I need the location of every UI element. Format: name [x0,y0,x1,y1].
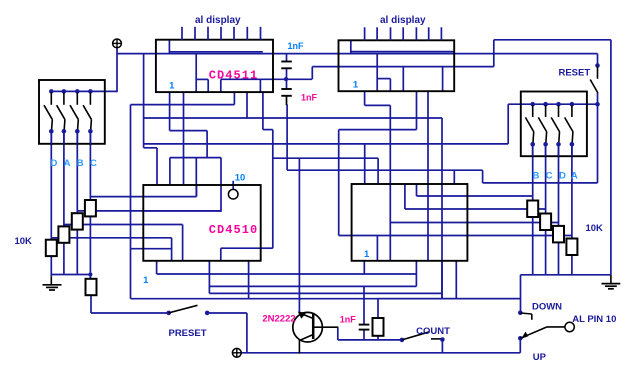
wire stub chip3 248 [248,261,250,299]
wire V494 [493,40,495,67]
switch UP contact [518,336,523,341]
wire V456 chip4 stub [455,261,457,299]
wire count line [338,339,402,341]
wire up contact stub [519,340,521,353]
svg-text:10: 10 [235,172,246,183]
wire R4 top [89,197,91,200]
wire branch C [90,196,196,198]
svg-text:2N2222: 2N2222 [262,313,295,324]
svg-text:AL PIN 10: AL PIN 10 [572,314,616,325]
wire preset res bottom [90,295,92,313]
svg-text:1: 1 [353,79,359,90]
wire R1 top [50,238,52,240]
wire count res top lead [377,299,379,318]
wire L158 [170,157,221,159]
resistor R6 10K [540,214,551,231]
wire chip3 notch r v [220,248,222,261]
wire L40 [494,39,611,41]
resistor R10 count pull [373,318,384,336]
svg-text:al display: al display [380,15,426,26]
wire V130 [130,105,132,299]
wire V364 chip4 [363,261,365,274]
svg-text:B: B [532,171,539,182]
svg-text:1: 1 [169,80,175,91]
wire chip1 notch1 v [207,79,209,92]
wire +V to switch bank bus [51,90,117,92]
wire L66 [312,66,494,68]
wire V416 chip4 [415,261,417,287]
svg-text:10K: 10K [14,236,32,247]
wire branch B [77,210,221,212]
wire bank-left drop [89,131,91,196]
wire right res bottom [571,255,573,275]
IC U1 display pins [181,27,183,40]
wire chip4 h3 [390,222,558,224]
wire chip3 notch r h [221,247,261,249]
wire count res bot lead [377,336,379,340]
wire L131 [170,130,208,132]
wire stub chip1 234 [233,92,235,105]
switch DOWN contact [518,310,523,315]
wire branch A [64,224,183,226]
wire R2 bottom [63,243,65,275]
capacitor C2 1nF [281,88,292,90]
wire L105 [365,104,391,106]
wire right res bottom [558,242,560,274]
resistor R5 10K [527,201,538,218]
svg-text:1nF: 1nF [301,92,318,102]
IC U4 CD4510 box [352,184,468,261]
switch SW1-2 [62,89,67,94]
wire chip3 in5 h [131,248,172,250]
svg-text:COUNT: COUNT [416,326,450,337]
wire +V drop from supply [116,48,118,92]
svg-text:1nF: 1nF [340,315,357,325]
svg-text:10K: 10K [585,223,603,234]
wire right res bottom [545,230,547,275]
wire bank-left drop [50,131,52,238]
wire preset drop [246,313,248,353]
resistor R4 10K [85,200,96,216]
wire chip1 strip [169,51,262,53]
transistor Q1 2N2222 [293,312,323,342]
wire bank-left drop [76,131,78,211]
wire chip3 right pin [261,247,273,249]
IC U3 CD4510 box [143,185,260,261]
IC U2 display pins [364,27,366,40]
wire down switch feed [378,298,520,300]
wire cap2 bottom lead blue [286,105,288,171]
wire L274 [157,273,417,275]
wire L170 [287,169,483,171]
wire count cap top lead [363,286,365,324]
IC U1 CD4511 box [156,40,273,92]
resistor R2 10K [58,226,69,242]
wire chip3 in4 v [171,238,173,261]
switch PRESET [166,311,171,316]
svg-text:CD4511: CD4511 [209,68,259,82]
wire stub chip1 169 [169,92,171,131]
wire count cap bot lead [363,330,365,340]
wire chip4 v416 [416,184,418,196]
wire chip3 in2 h [143,210,221,212]
svg-text:D: D [50,158,57,169]
wire chip4 h2 [405,208,546,210]
wire V454 to chip4 top [453,170,455,184]
wire chip1 v169 [168,40,170,54]
resistor R8 10K [566,239,577,256]
switch SW2-4 [570,102,575,107]
wire stub chip1 183 long [183,92,185,184]
resistor R3 10K [72,213,83,229]
wire bank-right drop [558,144,560,226]
wire V482 [482,170,484,183]
wire preset sw to V [209,312,247,314]
wire cap2 top lead [286,79,288,89]
wire bank-left drop [63,131,65,224]
wire L129 [263,129,273,131]
wire chip2 notch h [377,78,390,80]
power +V bottom [232,348,241,357]
wire +V rail [117,53,598,55]
wire bank-right drop [532,144,534,200]
wire chip2 v403 [402,67,404,92]
wire V508 [507,104,509,144]
wire count right stub [441,340,443,353]
wire stub chip2 416 [416,91,418,129]
wire L79 cap node [221,78,312,80]
wire V143 branch [143,54,145,118]
switch bank SW1 box [39,80,105,144]
wire chip3 in1 up [196,185,198,197]
wire chip4 h4 [339,235,572,237]
svg-text:1: 1 [364,249,370,260]
wire chip1 notch2 v1 [220,79,222,92]
wire bank-right drop [571,144,573,238]
wire R3 top [76,211,78,213]
svg-text:D: D [559,171,566,182]
wire L104 [131,104,235,106]
node cap junction [284,77,288,81]
wire L118 [144,117,442,119]
wire R3 bottom [76,230,78,275]
wire chip1 notch1 h [196,78,208,80]
svg-text:UP: UP [533,352,547,363]
wire chip1 notch2 v2 [259,79,261,92]
wire chip2 notch v [389,79,391,92]
svg-text:al display: al display [195,15,241,26]
capacitor C1 1nF [281,61,292,63]
wire V272 [272,130,274,249]
wire V196 to chip3 [195,158,197,197]
wire chip4 v377 [376,236,378,261]
wire V221 to chip3 [220,158,222,212]
wire chip2 v442 [442,67,444,92]
wire right bank bus [508,103,597,105]
wire cap1 top lead [286,54,288,62]
capacitor C3 1nF count [359,324,370,326]
wire chip4 h1 [417,195,533,197]
wire V170 to chip3 [169,158,171,184]
switch SW1-1 [49,89,54,94]
wire L131r [339,129,417,131]
wire chip2 strip [351,51,454,53]
wire stub chip3 156 [156,261,158,274]
wire V312 [311,67,313,80]
wire transistor emitter up [298,158,300,312]
wire transistor base jog v [337,327,339,340]
wire R4 bottom [89,217,91,280]
wire gnd bus left [51,274,90,276]
wire chip3 circle stub [232,181,234,190]
switch SW1-3 [75,89,80,94]
wire L286 [209,285,416,287]
svg-text:DOWN: DOWN [532,301,562,312]
IC U2 CD4511 box [339,40,455,91]
wire chip3 in3 v [182,225,184,261]
wire R1 bottom [50,256,52,277]
wire V441 chip4 stub [441,261,443,299]
wire cap1 bottom lead [286,68,288,79]
wire L183 [483,182,598,184]
svg-text:A: A [64,158,71,169]
wire V429 long [427,91,429,261]
wire V143 lower [143,118,145,148]
switch SW2-2 [543,102,548,107]
wire far right drop [610,40,612,275]
wire L293 [209,292,441,294]
switch SW1-4 [88,89,93,94]
switch SW2-1 [530,102,535,107]
switch RESET [595,63,600,68]
ground left [50,277,52,285]
wire V338 [338,130,340,236]
wire L144 [144,143,509,145]
wire stub chip1 247 [246,92,248,118]
wire V520 down [520,275,522,312]
resistor R9 preset pull [86,279,97,295]
node gnd bus junction [88,272,92,276]
svg-text:A: A [571,171,578,182]
svg-text:C: C [546,171,553,182]
wire chip2 v351 [350,40,352,53]
wire stub chip3 209 [208,261,210,294]
wire L118 T at cap [286,117,288,119]
wire V157 to chip3 [156,148,158,184]
wire L148 [144,147,157,149]
wire reset lower drop [597,105,599,183]
switch bank SW2 box [521,92,587,157]
svg-text:1nF: 1nF [287,41,304,51]
wire stub chip2 364 [364,91,366,105]
wire gnd bus right [521,274,611,276]
wire preset line [91,312,169,314]
power +V top [113,39,122,48]
wire V442 long [441,118,443,299]
wire V364 to chip4 top [364,144,366,184]
switch COUNT [400,338,405,343]
wire V207 [206,131,208,158]
ground right [610,275,612,284]
wire reset upper stub [597,54,599,65]
wire V378 to chip4 top [377,158,379,184]
wire +V bus bottom [241,352,520,354]
wire chip1 v196 [195,54,197,93]
wire L158 right [273,157,378,159]
wire stub chip1 262 [262,92,264,130]
svg-text:PRESET: PRESET [168,328,206,339]
wire chip4 v405 [404,184,406,209]
svg-text:C: C [90,158,97,169]
svg-text:1: 1 [143,275,149,286]
switch SW2-3 [556,102,561,107]
svg-text:RESET: RESET [558,68,590,79]
resistor R7 10K [553,226,564,243]
wire V390 long [389,105,391,260]
svg-text:CD4510: CD4510 [209,223,259,237]
node chip3 pin10 circle [228,189,238,199]
wire L299 [131,298,521,300]
wire chip2 v377 [376,54,378,92]
wire bank-right drop [545,144,547,213]
wire branch D [51,237,171,239]
wire right res bottom [532,217,534,275]
resistor R1 10K [46,240,57,256]
svg-text:B: B [77,158,84,169]
wire R2 top [63,225,65,227]
node AL PIN 10 circle [565,322,574,331]
